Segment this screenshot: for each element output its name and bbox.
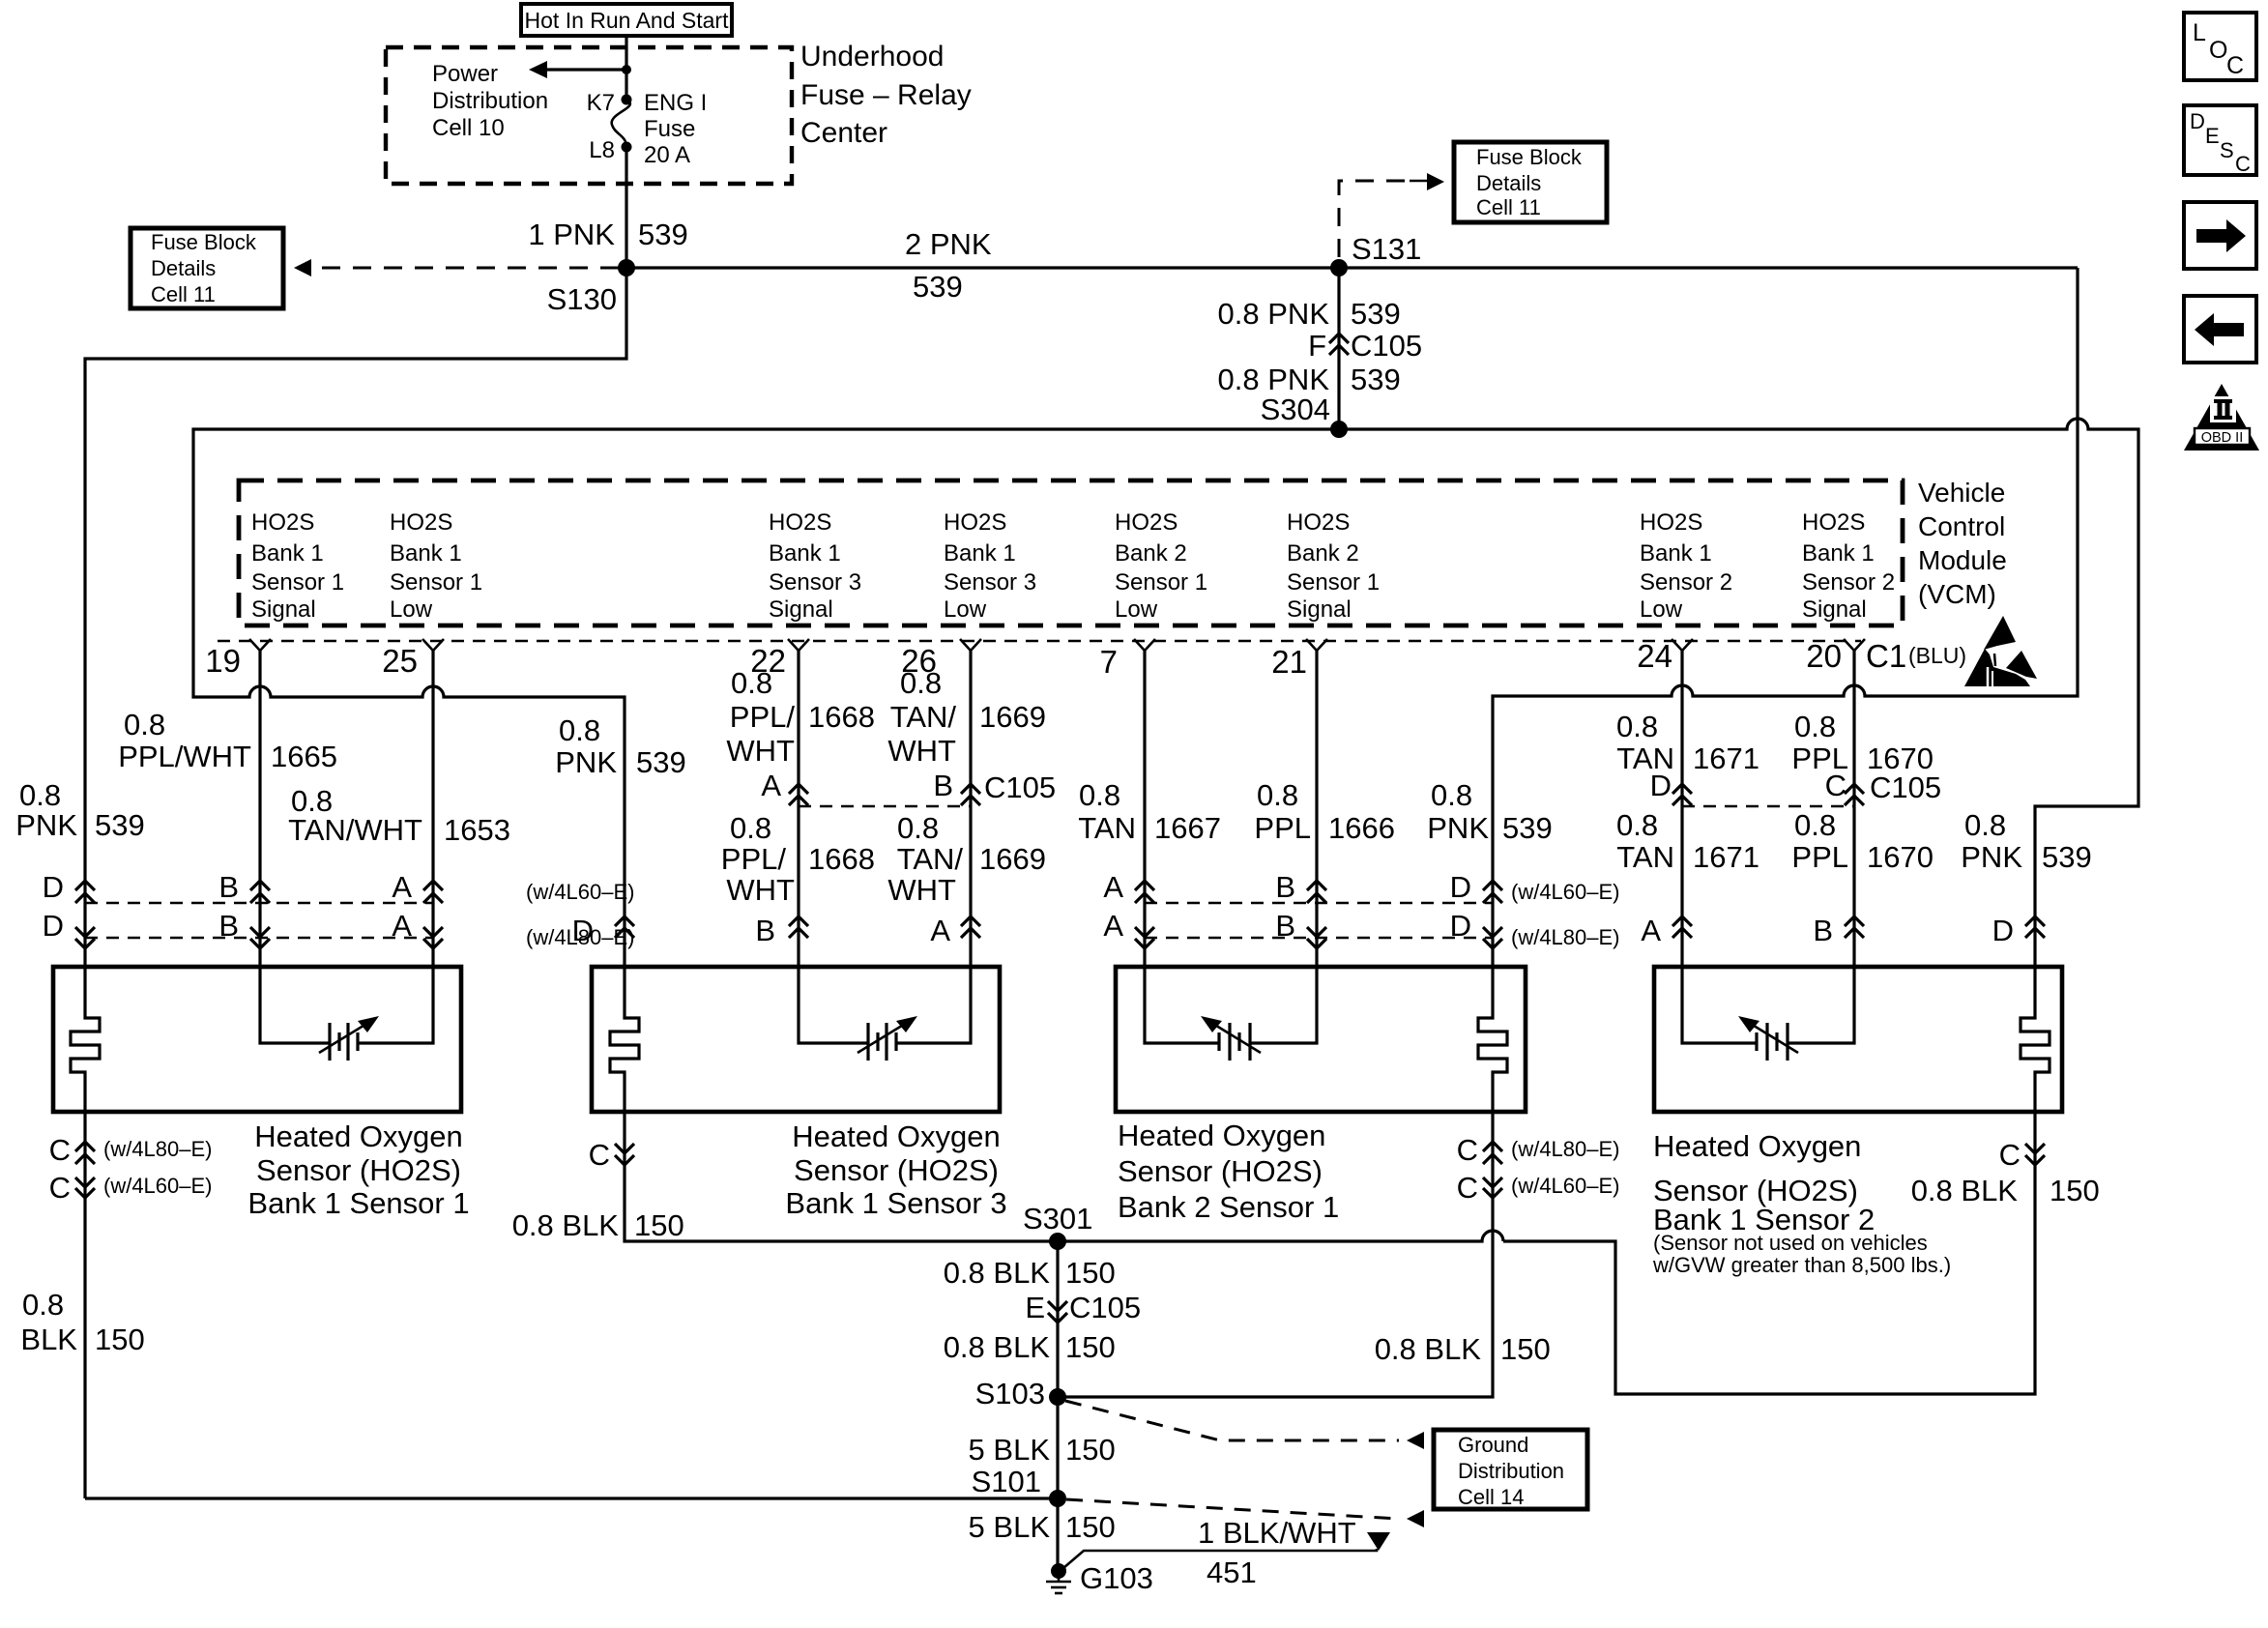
svg-text:0.8 PNK: 0.8 PNK [1218, 297, 1330, 331]
svg-text:O: O [2209, 37, 2227, 64]
transmission connector row w/4L80-E (B2S1 group) [1103, 909, 1619, 949]
svg-text:G103: G103 [1080, 1561, 1153, 1595]
VCM internal label HO2S Bank 1 Sensor 1 Low [390, 509, 482, 623]
svg-text:150: 150 [1065, 1256, 1116, 1290]
svg-text:PNK: PNK [555, 745, 617, 779]
node S301 [1049, 1233, 1066, 1250]
svg-text:B: B [755, 914, 775, 947]
svg-text:L8: L8 [589, 137, 615, 163]
svg-text:Vehicle: Vehicle [1918, 478, 2005, 508]
svg-text:150: 150 [1065, 1330, 1116, 1364]
svg-text:S103: S103 [975, 1377, 1045, 1410]
label Heated Oxygen Sensor (HO2S) Bank 2 Sensor 1 [1118, 1119, 1339, 1224]
svg-text:Heated Oxygen: Heated Oxygen [1653, 1129, 1861, 1163]
svg-text:1665: 1665 [271, 740, 337, 773]
wire branch to power distribution arrow [547, 68, 626, 71]
pin 24 terminal fork [1637, 638, 1693, 674]
wire left rail to S101 [85, 1497, 1058, 1499]
icon OBD II triangle [2184, 384, 2259, 451]
svg-text:Signal: Signal [251, 596, 316, 623]
svg-text:Signal: Signal [1287, 596, 1352, 623]
svg-text:0.8: 0.8 [124, 708, 165, 741]
svg-text:539: 539 [95, 808, 145, 842]
wire 0.8 PNK 539 from S131 to S304 [1337, 268, 1340, 429]
pin 21 terminal fork [1271, 639, 1327, 680]
svg-text:C105: C105 [1351, 329, 1422, 363]
svg-text:Fuse Block: Fuse Block [151, 230, 257, 254]
svg-text:A: A [1641, 914, 1661, 947]
svg-text:Bank 1: Bank 1 [1802, 540, 1875, 567]
svg-text:19: 19 [205, 643, 241, 679]
wire B1S1 ground C lead down to S101 run [83, 1112, 86, 1498]
arrowhead S103 reference [1407, 1432, 1424, 1449]
svg-text:A: A [1103, 909, 1123, 943]
svg-text:1671: 1671 [1693, 741, 1759, 775]
wire pin 19 signal 0.8 PPL/WHT 1665 [260, 651, 330, 1043]
arrowhead to Power Distribution [529, 61, 547, 78]
pin 25 terminal fork [382, 639, 444, 679]
pin 19 terminal fork [205, 639, 271, 679]
svg-text:150: 150 [2050, 1174, 2100, 1207]
node S304 [1330, 421, 1348, 438]
svg-text:(VCM): (VCM) [1918, 579, 1996, 609]
arrowhead down from Ground Distribution box [1367, 1532, 1390, 1551]
svg-text:1668: 1668 [808, 700, 875, 734]
svg-text:Power: Power [432, 61, 498, 87]
svg-text:OBD II: OBD II [2201, 430, 2244, 446]
svg-text:1 PNK: 1 PNK [528, 218, 615, 251]
svg-text:E: E [2205, 124, 2220, 148]
svg-text:S301: S301 [1023, 1202, 1092, 1236]
sensing element B1S1 [319, 1016, 379, 1061]
transmission connector row w/4L60-E (B1S1 group) [43, 870, 635, 904]
svg-text:2 PNK: 2 PNK [905, 227, 992, 261]
svg-text:B: B [933, 769, 953, 802]
svg-text:C1: C1 [1866, 638, 1906, 674]
ground trunk wire from S301 down to G103 [1056, 1241, 1059, 1571]
pin 26 terminal fork [901, 639, 981, 679]
svg-text:(w/4L80–E): (w/4L80–E) [1511, 925, 1620, 949]
fuse ENG I terminal L8 dot [622, 142, 632, 153]
svg-text:Cell 11: Cell 11 [1476, 195, 1541, 219]
svg-text:20: 20 [1806, 638, 1842, 674]
svg-text:0.8 BLK: 0.8 BLK [512, 1208, 620, 1242]
svg-text:Sensor 1: Sensor 1 [390, 569, 482, 596]
svg-text:S131: S131 [1352, 232, 1421, 266]
svg-text:Bank 2: Bank 2 [1287, 540, 1359, 567]
fuse ENG I terminal K7 dot [622, 95, 632, 105]
svg-text:Fuse Block: Fuse Block [1476, 145, 1583, 169]
svg-text:Sensor (HO2S): Sensor (HO2S) [794, 1153, 999, 1187]
svg-text:PNK: PNK [1961, 840, 2022, 874]
Vehicle Control Module dashed box [239, 480, 1903, 625]
reference box Fuse Block Details Cell 11 (left) [131, 228, 283, 308]
ground symbol G103 [1046, 1561, 1153, 1595]
svg-text:Bank 1 Sensor 3: Bank 1 Sensor 3 [785, 1186, 1006, 1220]
svg-text:0.8: 0.8 [19, 778, 61, 812]
reference box Fuse Block Details Cell 11 (right) [1454, 142, 1607, 222]
svg-text:Module: Module [1918, 545, 2007, 575]
wire 539 feed: right rail down, along lower run with hops, to B2S1 heater pin D [1493, 268, 2078, 1009]
svg-text:TAN/: TAN/ [897, 842, 964, 876]
wire pin 25 low 0.8 TAN/WHT 1653 [358, 651, 433, 1043]
svg-text:1668: 1668 [808, 842, 875, 876]
svg-text:A: A [1103, 870, 1123, 904]
svg-text:HO2S: HO2S [1640, 509, 1702, 536]
connector C1 face dashed line [218, 640, 1861, 642]
label Heated Oxygen Sensor (HO2S) Bank 1 Sensor 2 with note [1652, 1129, 1951, 1277]
svg-text:0.8: 0.8 [1964, 808, 2006, 842]
pin 7 terminal fork [1100, 639, 1155, 680]
wire pin 24 low 0.8 TAN 1671 [1682, 651, 1757, 1043]
svg-text:A: A [392, 870, 412, 904]
wire pin 7 low 0.8 TAN 1667 [1145, 651, 1219, 1043]
svg-text:150: 150 [634, 1208, 684, 1242]
svg-text:PPL/WHT: PPL/WHT [118, 740, 251, 773]
svg-text:ENG I: ENG I [644, 90, 707, 116]
dashed reference wire S103 to Ground Distribution [1065, 1401, 1399, 1440]
svg-text:Sensor 3: Sensor 3 [769, 569, 861, 596]
svg-text:0.8: 0.8 [900, 666, 942, 700]
heater element B1S1 [71, 1009, 100, 1112]
wire B2S1 ground C lead down to S103 run [1058, 1112, 1493, 1397]
svg-text:0.8 BLK: 0.8 BLK [1911, 1174, 2019, 1207]
svg-text:C105: C105 [984, 770, 1056, 804]
icon box right arrow [2184, 202, 2256, 269]
svg-text:150: 150 [95, 1323, 145, 1356]
VCM internal label HO2S Bank 1 Sensor 3 Low [944, 509, 1036, 623]
connector C w/4L60-E (B1S1) [49, 1171, 213, 1205]
svg-text:C: C [49, 1171, 71, 1205]
svg-text:(w/4L60–E): (w/4L60–E) [1511, 880, 1620, 904]
svg-text:Low: Low [1640, 596, 1683, 623]
svg-text:C: C [1825, 769, 1846, 802]
label Underhood Fuse - Relay Center [800, 41, 972, 149]
heater element B1S2 [2021, 1009, 2050, 1112]
svg-text:Center: Center [800, 117, 887, 149]
sensing element B2S1 [1201, 1016, 1261, 1061]
svg-text:TAN: TAN [1078, 811, 1136, 845]
dashed reference wire from S131 up to Fuse Block Details (right) [1339, 181, 1410, 257]
svg-text:Sensor (HO2S): Sensor (HO2S) [1118, 1154, 1323, 1188]
svg-text:PPL: PPL [1254, 811, 1311, 845]
svg-text:0.8: 0.8 [1079, 778, 1120, 812]
svg-text:WHT: WHT [726, 873, 795, 907]
svg-text:Heated Oxygen: Heated Oxygen [1118, 1119, 1325, 1152]
svg-text:539: 539 [638, 218, 688, 251]
svg-text:0.8 BLK: 0.8 BLK [944, 1256, 1051, 1290]
svg-text:Bank 2 Sensor 1: Bank 2 Sensor 1 [1118, 1190, 1339, 1224]
connector C w/4L80-E (B2S1) [1457, 1133, 1620, 1167]
svg-text:B: B [1275, 909, 1295, 943]
svg-text:BLK: BLK [20, 1323, 77, 1356]
arrowhead into left Fuse Block Details box [294, 259, 311, 276]
svg-text:C: C [49, 1133, 71, 1167]
svg-text:150: 150 [1500, 1332, 1551, 1366]
svg-text:7: 7 [1100, 644, 1118, 680]
wire B1S3 ground C lead to S301 [625, 1112, 1058, 1241]
svg-text:HO2S: HO2S [944, 509, 1006, 536]
sensing element B1S2 [1738, 1016, 1798, 1061]
sensing element B1S3 [858, 1016, 917, 1061]
connector F C105 [1329, 334, 1349, 343]
svg-text:(Sensor not used on vehicles: (Sensor not used on vehicles [1653, 1231, 1928, 1255]
svg-text:539: 539 [1502, 811, 1553, 845]
svg-text:1669: 1669 [979, 700, 1046, 734]
wire 539 feed: S304 line left, down, along bottom, to B1S3 heater pin D [193, 429, 1339, 1009]
svg-text:C: C [1999, 1138, 2021, 1172]
label Heated Oxygen Sensor (HO2S) Bank 1 Sensor 1 [247, 1119, 469, 1220]
wire from Hot In Run feed down to fuse [625, 36, 627, 100]
svg-text:1670: 1670 [1867, 840, 1934, 874]
svg-text:539: 539 [913, 270, 963, 304]
svg-text:Low: Low [1115, 596, 1158, 623]
svg-text:150: 150 [1065, 1510, 1116, 1544]
svg-text:C105: C105 [1870, 770, 1941, 804]
svg-text:F: F [1308, 329, 1326, 363]
svg-text:Bank 1: Bank 1 [390, 540, 462, 567]
wire pin 20 signal 0.8 PPL 1670 [1788, 651, 1854, 1043]
connector C w/4L80-E (B1S1) [49, 1133, 213, 1167]
reference box Ground Distribution Cell 14 [1434, 1430, 1587, 1509]
svg-text:S130: S130 [547, 282, 617, 316]
svg-text:539: 539 [2042, 840, 2092, 874]
label box Hot In Run And Start [521, 4, 732, 36]
svg-text:A: A [392, 909, 412, 943]
Underhood Fuse-Relay Center dashed enclosure [386, 47, 792, 184]
VCM internal label HO2S Bank 1 Sensor 1 Signal [251, 509, 344, 623]
wire 1 BLK/WHT 451 from G103 to Ground Distribution [1063, 1549, 1377, 1568]
svg-text:Low: Low [944, 596, 987, 623]
svg-text:PPL/: PPL/ [721, 842, 787, 876]
svg-text:539: 539 [636, 745, 686, 779]
heater element B1S3 [610, 1009, 639, 1112]
svg-text:0.8: 0.8 [1257, 778, 1298, 812]
svg-text:Fuse – Relay: Fuse – Relay [800, 79, 972, 111]
svg-text:5 BLK: 5 BLK [969, 1510, 1051, 1544]
svg-text:(w/4L60–E): (w/4L60–E) [103, 1174, 213, 1198]
wire B1S2 ground C lead down and left to S301 line [1503, 1112, 2035, 1394]
svg-text:Heated Oxygen: Heated Oxygen [792, 1119, 1000, 1153]
svg-text:1653: 1653 [444, 813, 510, 847]
svg-text:PPL/: PPL/ [730, 700, 796, 734]
svg-text:0.8: 0.8 [22, 1288, 64, 1322]
svg-text:C: C [589, 1138, 610, 1172]
svg-text:HO2S: HO2S [251, 509, 314, 536]
junction dot at branch [622, 65, 631, 74]
svg-text:A: A [761, 769, 781, 802]
svg-text:A: A [930, 914, 950, 947]
svg-text:C105: C105 [1069, 1291, 1141, 1324]
label Vehicle Control Module (VCM) [1918, 478, 2007, 609]
svg-text:B: B [1813, 914, 1833, 947]
svg-text:1669: 1669 [979, 842, 1046, 876]
node S103 [1049, 1388, 1066, 1406]
svg-text:Sensor (HO2S): Sensor (HO2S) [256, 1153, 461, 1187]
arrowhead S101 reference [1407, 1510, 1424, 1527]
icon box LOC [2184, 13, 2256, 80]
svg-text:w/GVW greater than 8,500 lbs.): w/GVW greater than 8,500 lbs.) [1652, 1253, 1951, 1277]
svg-text:0.8: 0.8 [1616, 710, 1658, 743]
HO2S Bank 1 Sensor 1 box [53, 967, 461, 1112]
wire 539 feed: S304 line right with hop, down, to B1S2 heater pin D [1339, 419, 2138, 1009]
svg-text:PPL: PPL [1791, 840, 1848, 874]
svg-text:B: B [218, 870, 239, 904]
node S101 [1049, 1490, 1066, 1507]
fuse ENG I 20A element curve [612, 100, 630, 147]
svg-text:Sensor 3: Sensor 3 [944, 569, 1036, 596]
svg-text:K7: K7 [587, 90, 615, 116]
svg-text:Cell 10: Cell 10 [432, 115, 505, 141]
svg-text:D: D [1992, 914, 2014, 947]
connector C (B1S3) [589, 1138, 634, 1172]
wire 2 PNK 539 from S130 to right rail [626, 266, 2078, 269]
heater element B2S1 [1478, 1009, 1507, 1112]
svg-text:HO2S: HO2S [1287, 509, 1350, 536]
svg-text:Bank 1: Bank 1 [769, 540, 841, 567]
svg-text:HO2S: HO2S [390, 509, 452, 536]
label Heated Oxygen Sensor (HO2S) Bank 1 Sensor 3 [785, 1119, 1006, 1220]
svg-text:Distribution: Distribution [1458, 1459, 1564, 1483]
svg-text:S: S [2220, 138, 2234, 162]
svg-text:E: E [1025, 1291, 1045, 1324]
svg-text:24: 24 [1637, 638, 1672, 674]
svg-text:D: D [43, 870, 64, 904]
svg-text:150: 150 [1065, 1433, 1116, 1467]
svg-text:Sensor 1: Sensor 1 [1115, 569, 1207, 596]
connector C (B1S2) [1999, 1138, 2045, 1172]
svg-text:Signal: Signal [769, 596, 833, 623]
svg-text:Details: Details [1476, 171, 1541, 195]
svg-text:L: L [2193, 19, 2206, 46]
VCM internal label HO2S Bank 1 Sensor 2 Low [1640, 509, 1732, 623]
VCM internal label HO2S Bank 2 Sensor 1 Signal [1287, 509, 1380, 623]
svg-text:C: C [2226, 52, 2244, 79]
sensor connector chevrons A / B / D (B1S2) [1641, 914, 2045, 947]
svg-text:Sensor 2: Sensor 2 [1640, 569, 1732, 596]
svg-text:PNK: PNK [1427, 811, 1489, 845]
VCM internal label HO2S Bank 2 Sensor 1 Low [1115, 509, 1207, 623]
wire fuse output down to S130 [625, 147, 627, 268]
svg-text:D: D [2190, 109, 2205, 133]
svg-text:451: 451 [1207, 1555, 1257, 1589]
svg-text:(w/4L60–E): (w/4L60–E) [526, 880, 635, 904]
svg-text:5 BLK: 5 BLK [969, 1433, 1051, 1467]
node S131 [1330, 259, 1348, 276]
svg-text:0.8: 0.8 [897, 811, 939, 845]
svg-text:1 BLK/WHT: 1 BLK/WHT [1198, 1516, 1356, 1550]
svg-text:Sensor 1: Sensor 1 [1287, 569, 1380, 596]
svg-text:0.8: 0.8 [731, 666, 772, 700]
wire pin 21 signal 0.8 PPL 1666 [1250, 651, 1317, 1043]
svg-text:(w/4L80–E): (w/4L80–E) [526, 925, 635, 949]
svg-text:PNK: PNK [15, 808, 77, 842]
svg-text:D: D [1450, 870, 1471, 904]
hop of S301 line over B2S1 ground wire [1058, 1231, 1503, 1241]
svg-text:25: 25 [382, 643, 418, 679]
svg-text:B: B [1275, 870, 1295, 904]
svg-text:Cell 14: Cell 14 [1458, 1485, 1524, 1509]
svg-text:Bank 1: Bank 1 [944, 540, 1016, 567]
ESD sensitivity symbol inside VCM [1964, 616, 2037, 686]
svg-text:0.8 PNK: 0.8 PNK [1218, 363, 1330, 396]
HO2S Bank 2 Sensor 1 box [1116, 967, 1526, 1112]
svg-text:0.8 BLK: 0.8 BLK [944, 1330, 1051, 1364]
sensor connector chevrons B / A / D (B1S3) [572, 914, 980, 947]
svg-text:Distribution: Distribution [432, 88, 548, 114]
wire 539 feed: S130 down and across to left rail, to B1S1 heater pin D [85, 268, 626, 1009]
svg-text:539: 539 [1351, 297, 1401, 331]
svg-text:0.8: 0.8 [1794, 710, 1836, 743]
connector C105 A-B row (B1S3) [761, 769, 1056, 806]
svg-text:(w/4L60–E): (w/4L60–E) [1511, 1174, 1620, 1198]
svg-text:Bank 2: Bank 2 [1115, 540, 1187, 567]
svg-text:0.8: 0.8 [730, 811, 771, 845]
svg-text:0.8: 0.8 [1431, 778, 1472, 812]
svg-text:1667: 1667 [1154, 811, 1221, 845]
svg-text:Hot In Run And Start: Hot In Run And Start [525, 8, 730, 33]
svg-text:1671: 1671 [1693, 840, 1759, 874]
connector C w/4L60-E (B2S1) [1457, 1171, 1620, 1205]
svg-text:Details: Details [151, 256, 216, 280]
svg-text:0.8: 0.8 [559, 713, 600, 747]
HO2S Bank 1 Sensor 3 box [592, 967, 1000, 1112]
svg-text:Heated Oxygen: Heated Oxygen [254, 1119, 462, 1153]
wire pin 22 signal 0.8 PPL/WHT 1668 [799, 651, 868, 1043]
svg-text:Sensor 2: Sensor 2 [1802, 569, 1895, 596]
icon box left arrow [2184, 296, 2256, 363]
svg-text:HO2S: HO2S [1115, 509, 1178, 536]
dashed reference wire from S130 to Fuse Block Details (left) [321, 267, 619, 270]
svg-text:WHT: WHT [887, 873, 956, 907]
svg-text:0.8: 0.8 [1794, 808, 1836, 842]
svg-text:HO2S: HO2S [769, 509, 831, 536]
icon box DESC [2184, 105, 2256, 176]
svg-text:(BLU): (BLU) [1908, 643, 1966, 668]
svg-text:S101: S101 [972, 1465, 1041, 1498]
connector E C105 [1025, 1291, 1141, 1324]
label Power Distribution Cell 10 [432, 61, 548, 141]
svg-text:WHT: WHT [726, 734, 795, 768]
svg-text:WHT: WHT [887, 734, 956, 768]
arrowhead into right Fuse Block Details box [1427, 173, 1444, 190]
svg-text:Cell 11: Cell 11 [151, 282, 216, 306]
svg-text:539: 539 [1351, 363, 1401, 396]
svg-text:Low: Low [390, 596, 433, 623]
svg-text:C: C [2235, 152, 2251, 176]
svg-text:Fuse: Fuse [644, 116, 695, 142]
svg-text:Bank 1: Bank 1 [1640, 540, 1712, 567]
svg-text:Bank 1: Bank 1 [251, 540, 324, 567]
svg-text:S304: S304 [1261, 392, 1330, 426]
svg-text:(w/4L80–E): (w/4L80–E) [1511, 1137, 1620, 1161]
pin 20 terminal fork [1806, 638, 1865, 674]
svg-text:1666: 1666 [1328, 811, 1395, 845]
svg-text:D: D [1450, 909, 1471, 943]
svg-text:Sensor 1: Sensor 1 [251, 569, 344, 596]
svg-text:TAN/WHT: TAN/WHT [288, 813, 422, 847]
VCM internal label HO2S Bank 1 Sensor 2 Signal [1802, 509, 1895, 623]
connector C105 D-C row (B1S2) [1650, 769, 1942, 806]
svg-text:TAN: TAN [1616, 840, 1674, 874]
svg-text:HO2S: HO2S [1802, 509, 1865, 536]
HO2S Bank 1 Sensor 2 box [1654, 967, 2062, 1112]
svg-text:20 A: 20 A [644, 142, 690, 168]
VCM internal label HO2S Bank 1 Sensor 3 Signal [769, 509, 861, 623]
transmission connector row w/4L80-E (B1S1 group) [43, 909, 635, 949]
svg-text:C: C [1457, 1133, 1478, 1167]
svg-text:(w/4L80–E): (w/4L80–E) [103, 1137, 213, 1161]
